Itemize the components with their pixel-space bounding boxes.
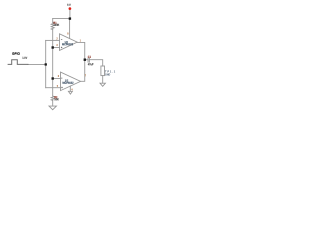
svg-text:10K: 10K: [54, 98, 59, 101]
svg-text:47uF: 47uF: [88, 63, 94, 66]
svg-text:100K: 100K: [53, 24, 59, 27]
svg-text:MCP6022: MCP6022: [62, 81, 74, 84]
svg-text:MCP6022: MCP6022: [62, 43, 74, 46]
svg-text:5V: 5V: [67, 3, 71, 7]
svg-text:1.5V: 1.5V: [22, 56, 27, 59]
svg-text:GND: GND: [105, 73, 111, 76]
svg-text:GPIO: GPIO: [12, 52, 20, 56]
